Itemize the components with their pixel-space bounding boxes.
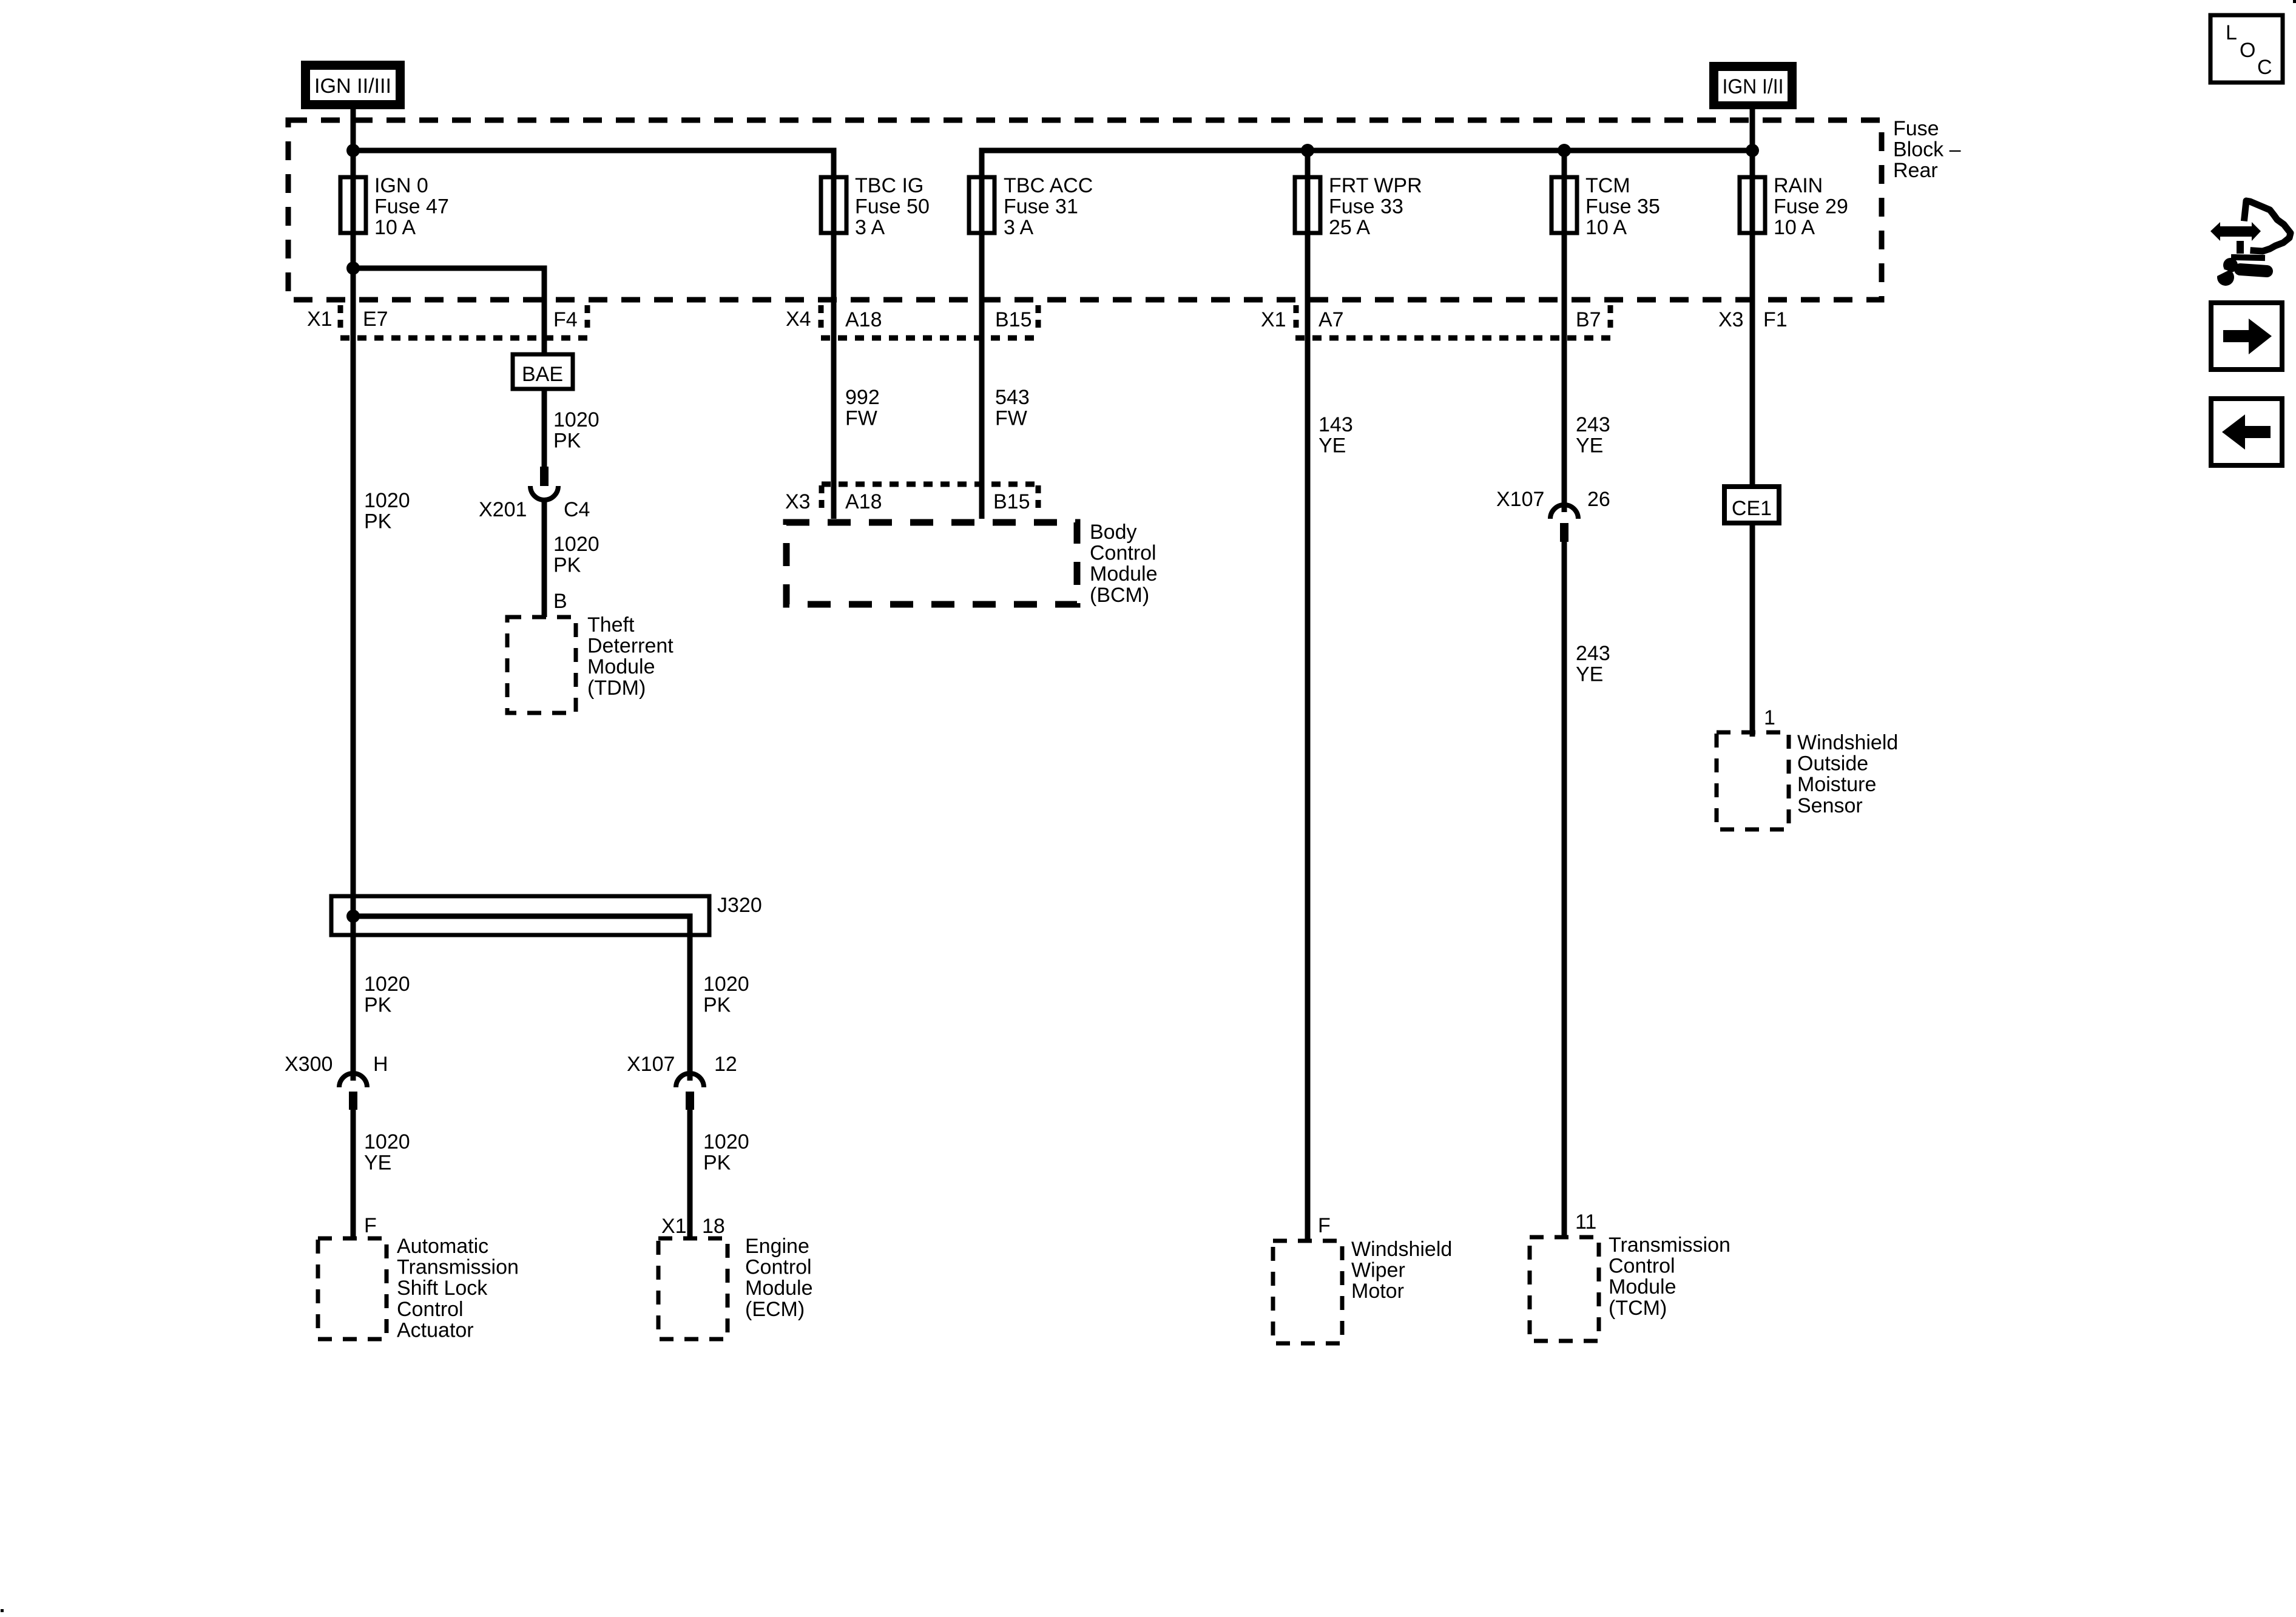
svg-text:B15: B15 — [993, 490, 1030, 513]
connector X107 pin 26 (inline) — [1550, 505, 1578, 542]
svg-text:C: C — [2257, 56, 2272, 79]
svg-text:26: 26 — [1587, 488, 1610, 511]
svg-text:X1: X1 — [307, 308, 333, 331]
svg-text:O: O — [2240, 39, 2255, 62]
svg-text:Fuse 47: Fuse 47 — [374, 195, 449, 218]
fuse F50 TBC IG — [821, 177, 846, 233]
svg-text:243: 243 — [1576, 642, 1610, 665]
svg-text:YE: YE — [364, 1152, 391, 1175]
svg-text:YE: YE — [1576, 434, 1603, 457]
power feed label IGN II/III — [301, 61, 405, 109]
engine control module (ECM) dashed box — [658, 1238, 728, 1339]
svg-text:FRT WPR: FRT WPR — [1329, 174, 1422, 197]
forward arrow box — [2211, 303, 2282, 370]
svg-text:F: F — [364, 1214, 377, 1237]
svg-text:Windshield: Windshield — [1797, 731, 1898, 754]
transmission control module (TCM) dashed box — [1530, 1237, 1599, 1341]
connector X3 row at BCM (pins A18, B15) dotted outline — [822, 482, 1038, 487]
svg-text:A18: A18 — [845, 308, 882, 331]
wire: FRT WPR fuse 33 down to wiper motor (143 YE) — [1305, 150, 1311, 1241]
svg-text:BAE: BAE — [522, 363, 563, 386]
svg-text:YE: YE — [1319, 434, 1346, 457]
fuse F33 FRT WPR — [1295, 177, 1320, 233]
svg-text:X107: X107 — [1496, 488, 1544, 511]
svg-text:A18: A18 — [845, 490, 882, 513]
wire: BAE to X201 connector (1020 PK) — [542, 389, 547, 467]
svg-text:IGN II/III: IGN II/III — [314, 75, 391, 98]
connector X1 row (pins E7, F4) dotted outline — [338, 305, 343, 334]
wire: branch from IGN 0 fuse output to BAE / F4 — [353, 268, 544, 354]
svg-text:TBC IG: TBC IG — [855, 174, 923, 197]
svg-text:Module: Module — [1090, 562, 1158, 586]
svg-text:Theft: Theft — [587, 613, 635, 636]
svg-text:IGN 0: IGN 0 — [374, 174, 428, 197]
svg-text:Motor: Motor — [1351, 1280, 1404, 1303]
svg-text:1020: 1020 — [553, 408, 599, 431]
svg-text:(TDM): (TDM) — [587, 677, 646, 700]
svg-text:C4: C4 — [564, 498, 590, 521]
body control module (BCM) dashed box — [786, 522, 1077, 604]
svg-text:PK: PK — [553, 554, 581, 577]
svg-text:Transmission: Transmission — [1609, 1234, 1730, 1257]
wire: 243 YE from X107 pin 26 down to TCM module — [1562, 542, 1567, 1237]
svg-text:1020: 1020 — [364, 489, 410, 512]
svg-text:X4: X4 — [786, 308, 811, 331]
svg-text:143: 143 — [1319, 413, 1353, 436]
svg-text:X3: X3 — [1718, 308, 1744, 331]
svg-text:Body: Body — [1090, 521, 1137, 544]
svg-text:Fuse 31: Fuse 31 — [1004, 195, 1078, 218]
fuse F29 RAIN — [1740, 177, 1765, 233]
windshield outside moisture sensor dashed box — [1717, 732, 1789, 829]
svg-text:Control: Control — [1090, 542, 1156, 565]
power feed label IGN I/II — [1709, 62, 1797, 109]
svg-text:FW: FW — [845, 407, 877, 430]
svg-text:Fuse 35: Fuse 35 — [1585, 195, 1660, 218]
splice label BAE — [513, 354, 573, 389]
svg-text:1: 1 — [1764, 706, 1775, 729]
svg-text:10 A: 10 A — [1585, 216, 1627, 239]
svg-text:PK: PK — [703, 994, 731, 1017]
svg-text:(ECM): (ECM) — [745, 1298, 805, 1321]
svg-text:992: 992 — [845, 386, 880, 409]
svg-text:Sensor: Sensor — [1797, 794, 1863, 817]
back arrow box — [2211, 399, 2282, 465]
svg-text:10 A: 10 A — [1774, 216, 1815, 239]
svg-text:CE1: CE1 — [1732, 497, 1772, 520]
svg-text:B15: B15 — [995, 308, 1032, 331]
fuse block - rear dashed outline — [288, 120, 1882, 300]
theft deterrent module (TDM) dashed box — [507, 617, 576, 713]
svg-text:F1: F1 — [1763, 308, 1788, 331]
svg-text:Automatic: Automatic — [397, 1235, 488, 1258]
svg-text:TBC ACC: TBC ACC — [1004, 174, 1093, 197]
svg-text:Control: Control — [1609, 1255, 1675, 1278]
svg-text:11: 11 — [1575, 1210, 1596, 1234]
svg-text:YE: YE — [1576, 663, 1603, 686]
svg-text:Windshield: Windshield — [1351, 1238, 1452, 1261]
svg-text:12: 12 — [714, 1053, 737, 1076]
svg-text:25 A: 25 A — [1329, 216, 1370, 239]
connector X4 row (pins A18, B15) dotted outline — [819, 305, 824, 334]
junction at TCM on bus B — [1558, 144, 1571, 157]
svg-text:B7: B7 — [1576, 308, 1601, 331]
automatic transmission shift lock control actuator dashed box — [318, 1238, 387, 1339]
svg-text:Fuse 29: Fuse 29 — [1774, 195, 1848, 218]
svg-text:PK: PK — [364, 510, 392, 533]
svg-text:1020: 1020 — [703, 1130, 749, 1153]
wire: TCM fuse 35 down to X107 connector (243 YE) — [1562, 150, 1567, 512]
junction inside J320 splice — [346, 910, 360, 923]
svg-text:Fuse 33: Fuse 33 — [1329, 195, 1403, 218]
wire: X201 pin C4 to TDM (1020 PK) — [542, 500, 547, 617]
svg-text:10 A: 10 A — [374, 216, 416, 239]
svg-text:F: F — [1318, 1214, 1331, 1237]
svg-text:Fuse 50: Fuse 50 — [855, 195, 930, 218]
LOC reference box — [2210, 15, 2283, 83]
fuse F31 TBC ACC — [969, 177, 994, 233]
junction at IGN 0 / bus A — [346, 144, 360, 157]
wire: X300 pin H to shift lock actuator (1020 YE) — [351, 1108, 356, 1238]
svg-text:IGN I/II: IGN I/II — [1723, 75, 1784, 98]
svg-text:H: H — [373, 1053, 388, 1076]
svg-text:Wiper: Wiper — [1351, 1259, 1405, 1282]
page edge mark bottom left — [1, 1609, 4, 1612]
svg-text:Module: Module — [745, 1277, 813, 1300]
svg-text:PK: PK — [553, 430, 581, 453]
svg-text:Actuator: Actuator — [397, 1318, 474, 1342]
svg-text:PK: PK — [703, 1152, 731, 1175]
svg-text:1020: 1020 — [364, 973, 410, 996]
svg-text:A7: A7 — [1319, 308, 1344, 331]
connector X107 pin 12 (inline) — [676, 1073, 704, 1110]
svg-text:Shift Lock: Shift Lock — [397, 1277, 488, 1300]
svg-text:3 A: 3 A — [1004, 216, 1033, 239]
svg-text:Control: Control — [745, 1256, 812, 1279]
svg-text:Deterrent: Deterrent — [587, 635, 674, 658]
wire: X107 pin 12 to ECM (1020 PK) — [687, 1108, 693, 1238]
svg-text:X1: X1 — [1261, 308, 1286, 331]
svg-text:X201: X201 — [479, 498, 527, 521]
wire: IGN II/III feed into fuse block (x=582) — [351, 107, 356, 1081]
svg-text:PK: PK — [364, 994, 392, 1017]
wire: bus A from IGN 0 junction to TBC IG fuse — [353, 150, 834, 519]
svg-text:(TCM): (TCM) — [1609, 1297, 1667, 1320]
svg-text:RAIN: RAIN — [1774, 174, 1823, 197]
svg-text:Fuse: Fuse — [1893, 117, 1939, 140]
svg-text:1020: 1020 — [364, 1130, 410, 1153]
splice pack J320 — [331, 896, 709, 935]
junction at IGN 0 output branch — [346, 262, 360, 275]
svg-text:243: 243 — [1576, 413, 1610, 436]
splice label CE1 — [1724, 487, 1779, 523]
diagnostic hand/wrench icon — [2210, 201, 2291, 286]
svg-text:Block –: Block – — [1893, 138, 1961, 161]
svg-text:Module: Module — [1609, 1275, 1676, 1298]
connector X1 row (pins A7, B7) dotted outline — [1294, 305, 1299, 334]
svg-text:Transmission: Transmission — [397, 1256, 519, 1279]
svg-text:Moisture: Moisture — [1797, 773, 1876, 796]
svg-text:FW: FW — [995, 407, 1027, 430]
svg-text:X3: X3 — [785, 490, 811, 513]
svg-text:Outside: Outside — [1797, 752, 1868, 775]
svg-text:X107: X107 — [627, 1053, 675, 1076]
svg-text:X300: X300 — [285, 1053, 333, 1076]
svg-text:543: 543 — [995, 386, 1030, 409]
wire: bus B from TBC ACC fuse to RAIN wire — [982, 150, 1752, 519]
svg-text:TCM: TCM — [1585, 174, 1630, 197]
connector X201 pin C4 (inline) — [530, 467, 558, 500]
svg-text:Rear: Rear — [1893, 159, 1938, 182]
svg-text:1020: 1020 — [703, 973, 749, 996]
svg-text:Control: Control — [397, 1298, 464, 1321]
svg-text:X1: X1 — [661, 1215, 687, 1238]
svg-text:3 A: 3 A — [855, 216, 885, 239]
junction at FRT WPR on bus B — [1301, 144, 1314, 157]
svg-text:B: B — [553, 590, 567, 613]
fuse F35 TCM — [1551, 177, 1577, 233]
svg-text:Engine: Engine — [745, 1235, 809, 1258]
page edge mark top right — [2293, 0, 2296, 3]
junction at RAIN on bus B — [1746, 144, 1759, 157]
svg-text:18: 18 — [702, 1215, 725, 1238]
wire: J320 splice output to X107 pin 12 (1020 PK) — [353, 916, 690, 1081]
connector X300 pin H (inline) — [339, 1073, 367, 1110]
svg-text:E7: E7 — [363, 308, 388, 331]
fuse F47 IGN 0 — [340, 177, 366, 233]
svg-text:F4: F4 — [553, 308, 578, 331]
windshield wiper motor dashed box — [1273, 1241, 1342, 1343]
wire: IGN I/II feed down through RAIN fuse to moisture sensor (x=2888) — [1750, 109, 1755, 737]
svg-text:J320: J320 — [717, 894, 762, 917]
svg-text:Module: Module — [587, 655, 655, 678]
svg-text:L: L — [2226, 21, 2237, 44]
svg-text:1020: 1020 — [553, 533, 599, 556]
svg-text:(BCM): (BCM) — [1090, 584, 1149, 607]
